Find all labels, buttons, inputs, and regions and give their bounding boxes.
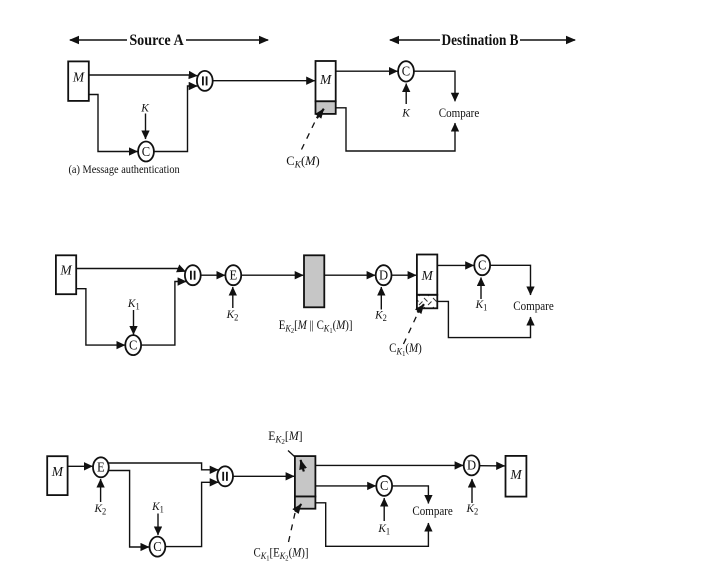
wire: M to concat top (b) <box>76 269 185 272</box>
svg-text:C: C <box>129 337 138 353</box>
box M dest (a) <box>316 61 336 101</box>
node concat (a) <box>197 71 213 91</box>
wire: dest M to C (b) <box>437 264 474 266</box>
label Compare (c) <box>412 503 452 518</box>
svg-text:C: C <box>402 63 411 79</box>
annotation arrow bottom (c) <box>295 504 301 512</box>
label K1 (b dest) <box>475 298 488 313</box>
svg-text:Compare: Compare <box>412 503 452 518</box>
svg-text:K: K <box>140 101 150 114</box>
wire: C output up into concat (a) <box>154 86 197 152</box>
wire: hatch box to compare bottom (b) <box>437 301 530 337</box>
node C dest (b) <box>474 255 490 275</box>
wire: M to E (c) <box>68 465 93 467</box>
box gray ciphertext (b) <box>304 255 324 307</box>
node C source (a) <box>138 142 154 162</box>
wire: E upper out into concat (c) <box>109 463 219 470</box>
wire: M to concat top (a) <box>89 74 198 77</box>
wire: K arrow into dest C (a) <box>405 84 407 105</box>
label Compare (b) <box>513 298 553 313</box>
label K2 (c source) <box>94 502 107 517</box>
wire: K2 arrow into E (b) <box>232 287 234 308</box>
wire: C to compare down-arrow (c) <box>392 486 428 504</box>
wire: C to compare down-arrow (b) <box>490 265 531 295</box>
wire: MAC box to compare bottom (a) <box>336 108 455 151</box>
wire: K2 arrow into D (b) <box>380 287 382 310</box>
wire: concat to E (b) <box>201 274 225 276</box>
wire: K1 arrow into dest C (c) <box>383 498 385 521</box>
wire: C output up into concat (b) <box>142 282 187 346</box>
label K1 (b source) <box>127 297 140 312</box>
svg-text:M: M <box>72 69 85 84</box>
svg-text:M: M <box>509 467 522 482</box>
label CK(M) (a) <box>286 154 319 171</box>
label K source (a) <box>140 101 150 114</box>
label K2 (b dest D) <box>374 308 387 323</box>
wire: K arrow into C (a) <box>145 114 147 140</box>
svg-text:C: C <box>478 257 487 273</box>
wire: Source A span arrow <box>70 39 268 41</box>
label K dest (a) <box>401 106 411 119</box>
wire: C up into concat (c) <box>165 482 218 546</box>
svg-text:M: M <box>51 464 64 479</box>
wire: K1 arrow into dest C (b) <box>480 278 482 300</box>
node C source (b) <box>125 335 141 355</box>
wire: K2 arrow into E (c) <box>100 479 102 502</box>
svg-text:Source A: Source A <box>129 32 183 49</box>
annotation arrow top (c) <box>301 460 304 472</box>
wire: M bottom stub down to C (a) <box>89 95 138 152</box>
label K1 (c dest) <box>377 522 390 537</box>
svg-text:M: M <box>420 268 433 283</box>
svg-text:K: K <box>401 106 411 119</box>
box MAC gray (a) <box>316 101 336 114</box>
wire: E to gray box (b) <box>241 274 303 276</box>
box gray lower (c) <box>295 497 316 509</box>
wire: gray box top out to D (c) <box>315 464 463 466</box>
wire: D to dest M (b) <box>392 274 417 276</box>
wire: K2 arrow into D (c) <box>471 479 473 503</box>
node concat (b) <box>185 265 201 285</box>
header text backers <box>127 30 186 48</box>
svg-text:Compare: Compare <box>513 298 553 313</box>
wire: Destination B span arrow <box>390 39 575 41</box>
box M source (c) <box>47 456 67 495</box>
wire: concat to dest M box (a) <box>213 80 315 82</box>
node E (b) <box>225 265 241 285</box>
svg-text:Destination B: Destination B <box>441 32 518 49</box>
label K1 (c source) <box>151 500 164 515</box>
label: Destination B <box>441 32 518 49</box>
label K2 (b source E) <box>226 308 239 323</box>
dashed leader (a) <box>302 121 316 150</box>
arrowheads for header spans <box>69 36 576 44</box>
wire: M bottom stub down to C (b) <box>76 289 125 345</box>
node C dest (a) <box>398 61 414 81</box>
label: Source A <box>129 32 183 49</box>
wire: gray box to D (b) <box>324 274 375 276</box>
label EK2[M] (c) <box>268 429 302 446</box>
svg-text:D: D <box>467 457 476 473</box>
wire: dest M top to C (a) <box>336 70 398 72</box>
caption (a) <box>69 163 181 176</box>
svg-text:C: C <box>142 143 151 159</box>
node C dest (c) <box>376 476 392 496</box>
box gray upper (c) <box>295 456 316 496</box>
svg-text:D: D <box>379 267 388 283</box>
label Compare (a) <box>439 105 479 120</box>
wire: E lower out down to C (c) <box>109 471 149 548</box>
svg-text:E: E <box>97 459 105 475</box>
dashed leader (b) <box>404 315 418 344</box>
node concat (c) <box>217 466 233 486</box>
label K2 (c dest) <box>466 502 479 517</box>
node C source (c) <box>150 537 166 557</box>
node D (b) <box>376 265 392 285</box>
label CK1(M) (b) <box>389 341 422 358</box>
box M dest (b) <box>417 255 437 295</box>
wire: concat to gray box (c) <box>233 475 294 477</box>
svg-text:Compare: Compare <box>439 105 479 120</box>
svg-text:M: M <box>319 72 332 87</box>
node D (c) <box>464 455 480 475</box>
wire: K1 arrow into C (c) <box>157 514 159 536</box>
box M source (a) <box>68 61 89 101</box>
wire: gray box second out to C (c) <box>315 485 375 487</box>
node E (c) <box>93 457 109 477</box>
annotation arrow into hatch box (b) <box>418 304 425 312</box>
label EK2[M || CK1(M)] (b) <box>279 318 353 335</box>
box M dest (c) <box>506 456 527 497</box>
svg-text:E: E <box>229 267 237 283</box>
wire: lower gray box to compare bottom (c) <box>315 503 428 547</box>
annotation arrow into MAC box (a) <box>317 109 324 118</box>
svg-text:C: C <box>380 478 389 494</box>
svg-text:C: C <box>153 538 162 554</box>
leader line top (c) <box>288 451 295 457</box>
svg-text:(a) Message authentication: (a) Message authentication <box>69 163 181 176</box>
label CK1[EK2(M)] (c) <box>254 546 309 563</box>
dashed leader bottom (c) <box>289 513 296 542</box>
wire: D to dest M (c) <box>480 465 505 467</box>
box M source (b) <box>56 255 76 294</box>
wire: C to compare down-arrow (a) <box>414 71 455 101</box>
wire: K1 arrow into C (b) <box>133 310 135 335</box>
box MAC hatched (b) <box>417 295 437 309</box>
svg-text:M: M <box>59 262 72 277</box>
